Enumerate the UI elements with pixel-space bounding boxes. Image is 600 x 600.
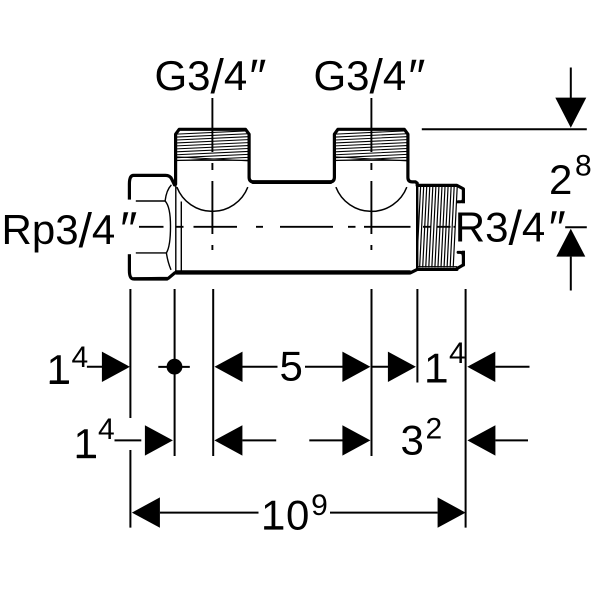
svg-text:5: 5	[280, 343, 303, 390]
vertical dimension 2.8 reference line	[422, 68, 587, 291]
row1 dim-5 left arrow	[215, 352, 243, 382]
dimension row 1 lines	[87, 366, 530, 368]
thread relief hook bottom	[458, 252, 463, 255]
svg-text:8: 8	[575, 150, 592, 183]
dimension row 3 overall lines	[160, 512, 438, 514]
foot serifs for digit 1 glyphs	[50, 379, 447, 530]
svg-text:1: 1	[47, 346, 70, 393]
right thread shoulder edge	[416, 185, 418, 269]
svg-text:4: 4	[72, 341, 89, 374]
svg-text:9: 9	[311, 489, 328, 522]
row3 overall right arrow	[438, 497, 466, 527]
vertical dim up-arrow shaft	[570, 257, 572, 291]
row1 arrow right at left face	[102, 352, 130, 382]
thick bottom and top body edges	[134, 182, 410, 279]
row2 arrow right at boss 2 axis	[342, 425, 370, 455]
extension line E (thread start x=417.4)	[416, 289, 418, 383]
row1 reference dot	[167, 359, 183, 375]
svg-text:2: 2	[549, 156, 572, 203]
extension line B (hex end x=174.6)	[174, 289, 176, 456]
manifold body outline (hex nut, two bosses, male thread end)	[129, 129, 463, 279]
bottom outline and hex left side	[129, 175, 463, 279]
extension line F (right face x=465.6)	[465, 289, 467, 528]
svg-text:3: 3	[401, 416, 424, 463]
boss 1 internal thread hatch	[177, 131, 249, 161]
vertical dim up arrow	[556, 229, 585, 257]
row1 arrow right at thread start	[388, 352, 416, 382]
horizontal axis centerline	[139, 226, 456, 228]
row1 dim-5 right arrow	[342, 352, 370, 382]
row1 arrow left at right face	[467, 352, 495, 382]
extension line A (left face x=130.4)	[130, 289, 465, 528]
row2 arrow left at right face	[467, 425, 495, 455]
boss 2 internal thread hatch	[335, 131, 407, 161]
svg-text:4: 4	[449, 337, 466, 370]
svg-text:G3/4″: G3/4″	[314, 51, 426, 104]
row3 overall left arrow	[132, 497, 160, 527]
boss 1 centerline	[211, 98, 213, 250]
label halo left (Rp3/4 knockout)	[0, 200, 136, 255]
vertical dim down-arrow shaft	[570, 68, 572, 99]
dimension row 2 lines	[115, 439, 529, 441]
thread relief hook top	[458, 200, 463, 202]
port cavity arc 1	[177, 187, 248, 211]
svg-text:G3/4″: G3/4″	[155, 51, 267, 104]
port cavity arc 2	[336, 187, 407, 211]
hex end-face lines	[175, 185, 177, 271]
svg-text:2: 2	[426, 412, 443, 445]
svg-text:10: 10	[261, 492, 311, 539]
hex nut facet lines	[131, 185, 182, 271]
extension line C (boss 1 axis x=213.2)	[212, 289, 214, 456]
boss 2 centerline	[370, 98, 372, 250]
row2 arrow left at boss 1 axis	[214, 425, 242, 455]
row2 arrow right at hex end	[145, 425, 173, 455]
svg-text:1: 1	[424, 345, 447, 392]
svg-text:1: 1	[74, 420, 97, 467]
label halo right (R3/4 knockout)	[458, 203, 562, 250]
vertical dim down arrow	[555, 98, 586, 128]
extension line D (boss 2 axis x=371.5)	[371, 289, 373, 456]
svg-text:R3/4″: R3/4″	[455, 202, 566, 255]
vertical dim lower tick	[565, 226, 587, 228]
svg-text:4: 4	[98, 413, 115, 446]
